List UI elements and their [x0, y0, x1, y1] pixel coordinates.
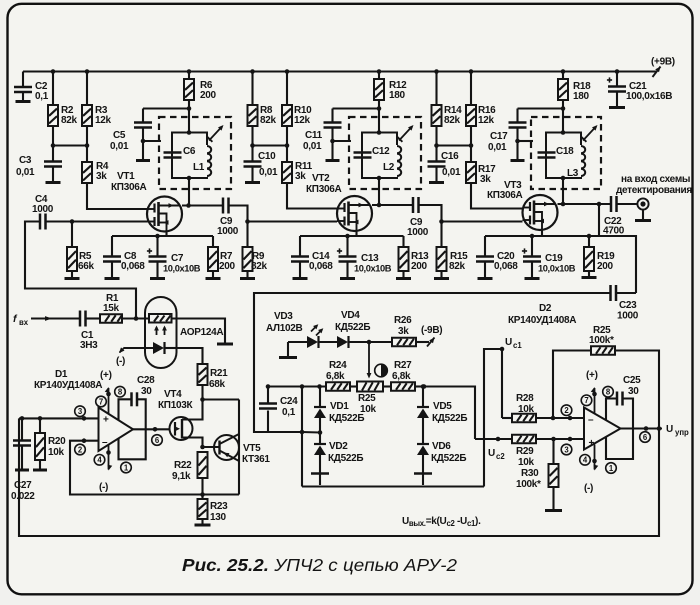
- node VD4-R26: [367, 340, 392, 345]
- diode VD3 AL102B: [266, 311, 319, 348]
- svg-text:180: 180: [389, 90, 406, 101]
- svg-text:КП103К: КП103К: [158, 400, 193, 411]
- node R21-VT4: [200, 397, 239, 402]
- capacitor C7: [147, 236, 201, 279]
- capacitor C14: [291, 236, 333, 279]
- trimmer symbol: [375, 364, 388, 377]
- svg-text:0,01: 0,01: [16, 167, 35, 178]
- svg-text:Рис. 25.2. УПЧ2 с цепью АРУ-2: Рис. 25.2. УПЧ2 с цепью АРУ-2: [182, 555, 457, 575]
- LED U1.D: [124, 342, 177, 354]
- svg-text:VD3: VD3: [274, 311, 293, 322]
- op-amp D1: [34, 369, 133, 451]
- wire C4 input loop: [25, 222, 136, 319]
- svg-text:4700: 4700: [603, 226, 625, 237]
- wire VT2 gate1: [248, 220, 338, 222]
- svg-text:10k: 10k: [518, 404, 535, 415]
- transistor VT3: [487, 180, 558, 230]
- svg-text:3k: 3k: [480, 174, 491, 185]
- wire D1 inverting loop: [70, 438, 239, 496]
- svg-text:12k: 12k: [478, 115, 495, 126]
- wire VT3 source rail: [485, 230, 599, 238]
- photoresistor U1.R: [149, 314, 172, 323]
- svg-text:0.022: 0.022: [11, 491, 35, 502]
- pin 8 D1: [115, 386, 126, 397]
- resistor R19: [582, 236, 616, 278]
- capacitor C13: [337, 236, 392, 279]
- svg-text:КД522Б: КД522Б: [329, 413, 364, 424]
- capacitor C20: [476, 236, 518, 279]
- svg-text:0,01: 0,01: [259, 167, 278, 178]
- resistor R23: [195, 495, 229, 526]
- resistor R24: [326, 360, 357, 391]
- wire AGC bias rail: [266, 384, 326, 389]
- resistor R30: [516, 439, 562, 511]
- svg-text:VD5: VD5: [433, 401, 452, 412]
- svg-text:(-): (-): [116, 356, 125, 367]
- resistor R8: [248, 72, 277, 146]
- resistor R26: [392, 315, 429, 346]
- svg-text:6,8k: 6,8k: [326, 371, 345, 382]
- svg-text:1000: 1000: [217, 226, 239, 237]
- pin 8 D2: [603, 386, 614, 397]
- svg-text:82k: 82k: [444, 115, 461, 126]
- wire VT1 source rail: [112, 231, 213, 238]
- svg-text:+: +: [103, 415, 109, 426]
- svg-text:C10: C10: [258, 151, 276, 162]
- svg-text:12k: 12k: [294, 115, 311, 126]
- svg-text:КР140УД1408А: КР140УД1408А: [508, 315, 576, 326]
- tuning arrow L1: [207, 125, 224, 142]
- svg-text:0,068: 0,068: [121, 261, 145, 272]
- svg-text:0,068: 0,068: [309, 261, 333, 272]
- svg-text:66k: 66k: [78, 261, 95, 272]
- svg-text:C18: C18: [556, 146, 574, 157]
- pin 7 D2: [581, 370, 597, 414]
- svg-text:c2: c2: [496, 452, 505, 461]
- resistor R1: [86, 293, 150, 323]
- wire R27 to Uc2: [421, 384, 475, 439]
- svg-text:0,01: 0,01: [110, 141, 129, 152]
- svg-text:КД522Б: КД522Б: [431, 453, 466, 464]
- svg-text:R23: R23: [210, 501, 228, 512]
- svg-text:C6: C6: [183, 146, 196, 157]
- node f_in: [13, 313, 80, 327]
- svg-text:200: 200: [411, 261, 428, 272]
- svg-text:4: 4: [583, 456, 588, 465]
- svg-text:1: 1: [124, 463, 129, 472]
- pin 1 D2: [606, 463, 617, 474]
- svg-text:15k: 15k: [103, 303, 120, 314]
- svg-text:КД522Б: КД522Б: [432, 413, 467, 424]
- resistor R5: [65, 222, 95, 279]
- capacitor C17: [488, 109, 563, 161]
- svg-text:9,1k: 9,1k: [172, 471, 191, 482]
- capacitor C5: [110, 109, 189, 161]
- resistor R22: [172, 452, 208, 495]
- svg-text:2: 2: [78, 445, 83, 454]
- svg-text:R21: R21: [210, 368, 228, 379]
- svg-text:6,8k: 6,8k: [392, 371, 411, 382]
- svg-text:82k: 82k: [260, 115, 277, 126]
- resistor R17: [466, 146, 523, 209]
- svg-text:упр: упр: [675, 428, 689, 437]
- capacitor C8: [103, 236, 145, 279]
- node Uc2: [488, 448, 505, 461]
- capacitor C25 loop: [606, 375, 641, 459]
- terminal (+9B): [651, 57, 675, 78]
- svg-text:R26: R26: [394, 315, 412, 326]
- wire Uc2 line: [475, 437, 512, 442]
- svg-text:(-): (-): [584, 483, 593, 494]
- svg-text:C13: C13: [361, 253, 379, 264]
- svg-text:C7: C7: [171, 253, 184, 264]
- optocoupler U1 AOP124A: [145, 297, 223, 368]
- wire C23 feedback riser: [599, 204, 636, 293]
- svg-text:на вход схемы: на вход схемы: [621, 174, 690, 185]
- svg-text:0,1: 0,1: [282, 407, 296, 418]
- svg-text:C17: C17: [490, 131, 508, 142]
- svg-text:–: –: [588, 415, 594, 426]
- wire VT1 drain node: [182, 203, 223, 208]
- wire L2 to drain: [378, 178, 380, 205]
- wire R8-R10 link: [250, 143, 289, 148]
- resistor R9: [240, 219, 268, 278]
- svg-text:VT2: VT2: [312, 173, 330, 184]
- resistor R18: [558, 72, 591, 133]
- shield box L3: [531, 117, 601, 189]
- wire ground return rail: [19, 418, 659, 536]
- svg-text:КТ361: КТ361: [242, 454, 270, 465]
- resistor R2: [48, 72, 78, 146]
- svg-text:10k: 10k: [48, 447, 65, 458]
- svg-text:R28: R28: [516, 393, 534, 404]
- svg-text:3Н3: 3Н3: [80, 340, 98, 351]
- diode VD2: [311, 418, 363, 485]
- wire L3 to drain: [562, 178, 564, 204]
- capacitor C22: [603, 196, 638, 237]
- svg-text:L3: L3: [567, 168, 579, 179]
- svg-text:(+): (+): [100, 370, 112, 381]
- resistor R6: [184, 72, 217, 133]
- svg-text:C24: C24: [280, 396, 298, 407]
- terminal minus of LED: [116, 347, 125, 367]
- svg-text:C3: C3: [19, 155, 32, 166]
- svg-text:1000: 1000: [407, 227, 429, 238]
- terminal (-9B): [421, 325, 442, 347]
- svg-text:130: 130: [210, 512, 227, 523]
- capacitor C19: [522, 236, 576, 279]
- capacitor C27: [11, 418, 35, 502]
- pin 2 D1: [75, 444, 86, 455]
- tuning arrow L3: [581, 125, 598, 142]
- svg-text:КД522Б: КД522Б: [335, 322, 370, 333]
- svg-text:C25: C25: [623, 375, 641, 386]
- wire VT3 drain node: [558, 202, 612, 207]
- svg-text:82k: 82k: [61, 115, 78, 126]
- wire AGC bottom rail: [302, 485, 484, 487]
- svg-text:D1: D1: [55, 369, 68, 380]
- tuned circuit C18 L3: [538, 130, 586, 180]
- pin 3 D2: [561, 444, 572, 455]
- wire VT2 source rail: [300, 231, 404, 238]
- wire L1 to drain: [188, 178, 190, 206]
- svg-text:10,0x10В: 10,0x10В: [538, 264, 576, 274]
- svg-text:7: 7: [99, 397, 103, 406]
- svg-text:82k: 82k: [449, 261, 466, 272]
- capacitor C1: [80, 311, 98, 352]
- resistor R10: [282, 72, 312, 146]
- wire VT5 collector riser: [238, 400, 240, 495]
- transistor VT5: [200, 434, 270, 465]
- svg-text:0,01: 0,01: [488, 142, 507, 153]
- svg-text:R24: R24: [329, 360, 347, 371]
- svg-text:(-): (-): [99, 482, 108, 493]
- diode VD5: [417, 387, 467, 425]
- svg-text:R20: R20: [48, 436, 66, 447]
- svg-text:12k: 12k: [95, 115, 112, 126]
- ground VD3: [279, 342, 297, 358]
- svg-text:100k*: 100k*: [589, 335, 614, 346]
- wire D2 output: [621, 426, 663, 431]
- svg-text:вх: вх: [19, 318, 29, 327]
- light arrows VD3: [311, 324, 323, 335]
- svg-text:6: 6: [155, 436, 160, 445]
- svg-text:C5: C5: [113, 130, 126, 141]
- svg-text:C11: C11: [305, 130, 323, 141]
- resistor R14: [432, 72, 463, 146]
- svg-text:0,01: 0,01: [442, 167, 461, 178]
- svg-text:VD1: VD1: [330, 401, 349, 412]
- svg-text:R25: R25: [358, 393, 376, 404]
- svg-text:VD4: VD4: [341, 310, 360, 321]
- svg-text:3k: 3k: [398, 326, 409, 337]
- svg-text:6: 6: [643, 433, 648, 442]
- capacitor C11: [303, 109, 379, 161]
- svg-text:АЛ102В: АЛ102В: [266, 323, 303, 334]
- resistor R20: [33, 418, 66, 470]
- capacitor C24: [259, 387, 298, 433]
- svg-text:(+9В): (+9В): [651, 57, 675, 68]
- pin 3 D1: [75, 406, 86, 417]
- light arrows U1: [154, 326, 167, 336]
- svg-text:КП306А: КП306А: [487, 190, 522, 201]
- svg-text:3: 3: [564, 445, 569, 454]
- svg-text:1: 1: [609, 464, 614, 473]
- svg-text:2: 2: [564, 406, 569, 415]
- pin 6 D2: [640, 432, 651, 443]
- capacitor C9: [217, 198, 248, 238]
- capacitor C3: [16, 146, 62, 183]
- svg-text:L1: L1: [193, 162, 205, 173]
- svg-text:200: 200: [200, 90, 217, 101]
- pin 2 D2: [561, 405, 572, 416]
- svg-text:VT5: VT5: [243, 443, 261, 454]
- caption: [182, 555, 457, 575]
- svg-text:7: 7: [584, 396, 588, 405]
- tuned circuit C6 L1: [164, 130, 212, 180]
- svg-text:(-9В): (-9В): [421, 325, 442, 336]
- op-amp D2: [508, 303, 621, 450]
- svg-text:4: 4: [97, 456, 102, 465]
- wire Uc1 riser: [484, 347, 504, 487]
- resistor R27: [383, 360, 424, 391]
- svg-text:0,1: 0,1: [35, 91, 49, 102]
- resistor R3: [82, 72, 112, 146]
- svg-text:КР140УД1408А: КР140УД1408А: [34, 380, 102, 391]
- svg-text:3k: 3k: [295, 171, 306, 182]
- svg-text:R30: R30: [521, 468, 539, 479]
- diode VD1: [314, 387, 364, 425]
- svg-text:1000: 1000: [32, 204, 54, 215]
- wire R2-R3 link: [51, 143, 90, 148]
- pin 7 D1: [96, 370, 112, 414]
- formula: [402, 516, 481, 528]
- svg-text:КП306А: КП306А: [306, 184, 341, 195]
- svg-text:детектирования: детектирования: [616, 185, 692, 196]
- capacitor C21: [607, 72, 672, 108]
- pin 1 D1: [121, 462, 132, 473]
- transistor VT2: [306, 173, 372, 231]
- svg-text:АОР124А: АОР124А: [180, 327, 223, 338]
- resistor R4: [82, 146, 148, 210]
- svg-text:R29: R29: [516, 446, 534, 457]
- svg-text:–: –: [102, 437, 108, 448]
- transistor VT1: [111, 171, 182, 232]
- svg-text:10k: 10k: [518, 457, 535, 468]
- transistor VT4: [158, 389, 203, 447]
- resistor R16: [466, 72, 496, 146]
- wiper arrow R25: [367, 342, 372, 379]
- svg-text:R22: R22: [174, 460, 192, 471]
- svg-text:c1: c1: [513, 341, 522, 350]
- svg-text:VD6: VD6: [432, 441, 451, 452]
- resistor R7: [206, 236, 236, 279]
- shield box L1: [159, 117, 231, 189]
- resistor R13: [396, 236, 429, 279]
- svg-text:180: 180: [573, 91, 590, 102]
- resistor R28: [502, 393, 584, 422]
- wire R14-R16 link: [434, 143, 473, 148]
- wire VT2 drain node: [372, 203, 413, 208]
- resistor R15: [434, 219, 468, 278]
- resistor R21: [198, 364, 229, 400]
- capacitor C16: [428, 146, 462, 183]
- resistor R29: [512, 435, 584, 468]
- svg-text:U: U: [488, 448, 495, 459]
- node Uupr: [666, 424, 689, 437]
- svg-text:КП306А: КП306А: [111, 182, 146, 193]
- resistor R25a feedback: [553, 325, 659, 429]
- wire D1 noninverting input: [19, 416, 99, 421]
- svg-text:8: 8: [118, 388, 123, 397]
- capacitor C10: [244, 146, 279, 183]
- svg-text:3: 3: [78, 407, 83, 416]
- pin 4 D2: [580, 445, 599, 495]
- svg-text:L2: L2: [383, 162, 395, 173]
- svg-text:C23: C23: [619, 300, 637, 311]
- tuned circuit C12 L2: [354, 130, 402, 180]
- capacitor C23: [611, 285, 639, 322]
- node Uc1: [505, 337, 522, 350]
- svg-text:10,0x10В: 10,0x10В: [354, 264, 392, 274]
- wire +9V supply rail: [23, 69, 656, 74]
- svg-text:100,0x16В: 100,0x16В: [626, 91, 672, 102]
- svg-text:C28: C28: [137, 375, 155, 386]
- svg-text:1000: 1000: [617, 311, 639, 322]
- svg-text:100k*: 100k*: [516, 479, 541, 490]
- shield box L2: [349, 117, 421, 189]
- capacitor C9a: [407, 197, 442, 238]
- svg-text:3k: 3k: [96, 171, 107, 182]
- svg-text:200: 200: [597, 261, 614, 272]
- capacitor C4: [32, 194, 54, 230]
- wire VT3 gate1: [442, 220, 523, 222]
- svg-text:C16: C16: [441, 151, 459, 162]
- diode VD6: [414, 418, 466, 485]
- svg-text:U: U: [505, 337, 512, 348]
- pin 6 D1: [152, 435, 163, 446]
- svg-text:10,0x10В: 10,0x10В: [163, 264, 201, 274]
- resistor R11: [282, 146, 337, 209]
- svg-text:R27: R27: [394, 360, 412, 371]
- svg-text:30: 30: [141, 386, 152, 397]
- svg-text:(+): (+): [586, 370, 598, 381]
- wire AGC box frame: [254, 293, 611, 435]
- diode VD4: [319, 310, 370, 348]
- resistor R12: [374, 72, 407, 133]
- svg-text:30: 30: [628, 386, 639, 397]
- wire bias to bottom riser: [301, 387, 303, 487]
- svg-text:U: U: [666, 424, 673, 435]
- wire D1 output: [133, 427, 170, 432]
- wire VT1 gate1: [46, 219, 148, 224]
- pin 4 D1: [94, 445, 112, 493]
- wire LED to R21: [177, 348, 203, 364]
- svg-text:0,01: 0,01: [303, 141, 322, 152]
- svg-text:200: 200: [219, 261, 236, 272]
- svg-text:0,068: 0,068: [494, 261, 518, 272]
- wire photoresistor to gnd: [172, 319, 234, 345]
- svg-text:D2: D2: [539, 303, 552, 314]
- svg-text:8: 8: [606, 388, 611, 397]
- capacitor C28 loop: [119, 375, 156, 459]
- svg-text:C19: C19: [545, 253, 563, 264]
- svg-text:C12: C12: [372, 146, 390, 157]
- svg-text:КД522Б: КД522Б: [328, 453, 363, 464]
- svg-text:82k: 82k: [251, 261, 268, 272]
- svg-text:68k: 68k: [209, 379, 226, 390]
- capacitor C2: [14, 72, 49, 103]
- tuning arrow L2: [397, 125, 414, 142]
- potentiometer R25: [357, 382, 383, 416]
- svg-text:C27: C27: [14, 480, 32, 491]
- terminal to detector: [616, 174, 692, 221]
- svg-text:VT4: VT4: [164, 389, 182, 400]
- svg-text:VD2: VD2: [329, 441, 348, 452]
- svg-text:VT1: VT1: [117, 171, 135, 182]
